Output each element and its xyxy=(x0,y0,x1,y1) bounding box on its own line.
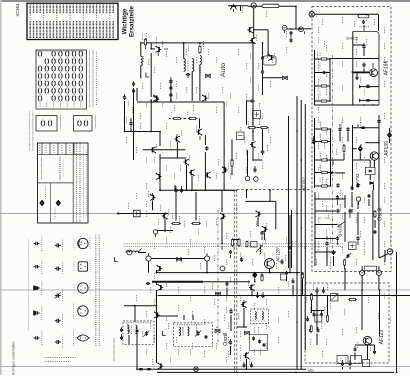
wire mid links xyxy=(159,154,161,190)
test point circle TP1 xyxy=(282,25,287,30)
wire mixer vertical xyxy=(252,43,254,132)
ratio det cap xyxy=(146,282,151,285)
junction dots xyxy=(140,42,142,44)
am rail 201 xyxy=(245,200,275,202)
if mid links xyxy=(246,101,248,125)
am if box xyxy=(263,56,276,65)
osc filter box xyxy=(349,242,357,250)
transistor AF139 xyxy=(370,152,378,160)
FM2 diode arrow xyxy=(331,172,335,175)
bottom rail caps xyxy=(139,369,142,370)
test point circle TP2 xyxy=(299,27,304,32)
ratio det trans T20 xyxy=(157,284,163,291)
pinout square xyxy=(78,262,87,271)
M marker 1 xyxy=(206,74,211,78)
voltage table column divider xyxy=(72,143,74,223)
RF res R14 xyxy=(174,117,181,119)
FM stage1 cap row 2 xyxy=(360,99,379,101)
small coil box FM caption xyxy=(95,116,96,128)
osc switch xyxy=(337,222,345,228)
scan border left xyxy=(0,0,2,375)
wire bottom rail xyxy=(137,368,306,370)
br pot box xyxy=(331,294,339,302)
wire input stage bottom xyxy=(137,101,224,103)
mixer diode D4 xyxy=(387,132,392,139)
L marker 2 xyxy=(115,257,118,262)
wire rf link xyxy=(130,128,132,132)
osc cap C40 xyxy=(325,241,328,246)
voltage table header cell values xyxy=(39,146,40,153)
supply connector circle xyxy=(251,3,256,8)
FM inner box 2 xyxy=(378,115,380,190)
diode symbol D1 xyxy=(39,200,44,207)
output trafo box 1 xyxy=(337,356,348,364)
FM2 links xyxy=(378,155,380,157)
am osc boxes xyxy=(251,242,258,248)
det caps xyxy=(174,188,177,193)
voltage table frame xyxy=(38,143,89,223)
trimmer stack C4 xyxy=(169,79,172,83)
br res 352 xyxy=(350,298,356,300)
br caps row3 xyxy=(309,328,312,332)
IF trans T6 xyxy=(222,166,228,173)
FM box links xyxy=(353,44,364,46)
K marker 2 xyxy=(245,331,250,335)
osc trim xyxy=(347,254,350,258)
legend C symbol 3 xyxy=(34,286,40,289)
osc coupling caps xyxy=(261,55,264,61)
det trans T14 xyxy=(162,213,168,220)
br cap 355 xyxy=(354,347,357,351)
AM dashed partition xyxy=(233,190,235,373)
FM ladder comp y86 xyxy=(315,85,331,87)
tuner interior extra wires xyxy=(352,71,370,73)
antenna resistor R1 xyxy=(144,39,146,45)
RF trans T11 xyxy=(189,170,195,177)
IF transformer dashed box 2 xyxy=(174,323,213,346)
FM stage1 base wire xyxy=(353,72,370,74)
output trafo box 2 xyxy=(351,356,362,364)
trimmer stack C5 xyxy=(169,86,172,90)
K marker xyxy=(283,76,288,80)
M marker 4 xyxy=(215,329,220,333)
FM stage1 labels xyxy=(363,90,366,95)
small coil box AM xyxy=(36,116,57,132)
osc transformer dashed box xyxy=(251,309,269,324)
tuner dashed enclosure xyxy=(312,6,391,271)
br res 311b xyxy=(310,326,312,332)
crystal box X1 xyxy=(134,210,141,217)
IF t2 caps xyxy=(205,335,208,339)
input trimmer C1 xyxy=(132,89,135,94)
osc cap row 3 xyxy=(336,236,339,241)
FM2 rail 142 xyxy=(365,142,379,144)
voltage table transistor column text xyxy=(41,157,42,179)
legend trimmer symbol 4 xyxy=(55,319,61,323)
wire if bus b xyxy=(300,100,302,369)
tuner bottom sockets xyxy=(360,270,365,275)
voltage table mid divider xyxy=(38,182,74,184)
legend trimmer symbol 3 xyxy=(55,294,61,298)
RF trans T8c xyxy=(196,129,202,136)
FM2 interior extra xyxy=(353,159,371,161)
FM2 ladder comp y172.5 xyxy=(315,172,331,174)
bottom mid links xyxy=(124,305,157,307)
mixer transistor T4 xyxy=(250,38,256,45)
bottom left part numbers xyxy=(113,338,114,360)
IF t2 coils xyxy=(179,327,180,336)
am if transistor T4c xyxy=(268,54,274,61)
legend caption column left xyxy=(28,240,29,330)
IF t1 caps xyxy=(120,328,123,332)
IF t2 trimmer xyxy=(196,331,199,336)
osc inner box xyxy=(250,335,268,351)
legend trimmer symbol 1 xyxy=(55,243,61,247)
FM2 lower caps xyxy=(336,183,339,188)
wire lf rail 295 xyxy=(158,295,410,297)
RF trans T12 xyxy=(156,173,162,180)
wire osc links xyxy=(257,217,259,227)
wire AGC xyxy=(298,28,311,30)
am osc cap C50 xyxy=(225,282,228,287)
svg-text:Wichtige: Wichtige xyxy=(121,8,128,34)
varicap socket xyxy=(387,249,393,255)
fold line 1 xyxy=(0,213,410,215)
am osc trans xyxy=(249,285,255,292)
FM ladder comp y72.5 xyxy=(315,72,331,74)
IF res R11 xyxy=(249,126,255,128)
transistor T2 xyxy=(153,94,159,101)
FM stage1 rail 58 xyxy=(330,58,379,60)
diode symbol D2 xyxy=(56,200,61,207)
legend trimmer symbol 5 xyxy=(55,340,61,344)
test point TP4 xyxy=(254,177,259,182)
RF trimmer C14 xyxy=(123,95,126,100)
osc out res xyxy=(344,260,346,265)
supply resistor R3 xyxy=(262,4,279,7)
br res 327 xyxy=(327,316,329,322)
RF trans T10b xyxy=(205,172,211,179)
bandfilter transformer Tr1 xyxy=(184,59,186,72)
caption left of boxes xyxy=(29,112,30,150)
transistor T3 xyxy=(230,4,237,10)
pinout lens xyxy=(77,335,89,341)
test point TP5 xyxy=(153,230,157,234)
trimmer stack C6 xyxy=(169,93,172,97)
svg-text:Oscill.: Oscill. xyxy=(377,206,383,221)
wire top rail xyxy=(248,5,296,7)
osc cap row 1 xyxy=(350,186,353,191)
wire right tail xyxy=(396,252,398,373)
fold line 3 xyxy=(0,366,410,368)
legend C symbol 5 xyxy=(34,336,40,339)
ratio det trans T24 xyxy=(154,311,160,318)
am trans T18 AF126 xyxy=(265,259,275,269)
IF filter box F2 xyxy=(237,132,245,140)
am res R20 xyxy=(231,240,233,246)
RF trans T9 xyxy=(150,147,156,154)
IF t1 coils xyxy=(128,325,129,334)
antenna coil L1 xyxy=(141,56,143,65)
coil glyph captions xyxy=(40,102,41,107)
am diode D3 xyxy=(252,272,257,279)
br cap 374 xyxy=(373,350,376,354)
FM2 caps xyxy=(338,127,341,132)
det trans T21 xyxy=(157,362,163,369)
wire IF rail xyxy=(124,131,160,133)
pinout circle 1 xyxy=(78,238,88,248)
FM2 rail 127 xyxy=(353,127,380,129)
osc output link coil xyxy=(365,266,377,270)
br res 311 xyxy=(311,294,313,300)
legend electrolytic C symbol 1 xyxy=(34,242,40,245)
RF trans T7 xyxy=(153,96,159,103)
pinout circle 2 xyxy=(78,283,88,293)
br caps row1 xyxy=(315,289,318,294)
RF trans T8b xyxy=(174,136,180,143)
mixer diode D5 xyxy=(358,145,363,152)
bandfilter cap C3 xyxy=(186,73,191,76)
voltage table header divider xyxy=(38,154,89,156)
wire if bus a xyxy=(296,96,298,369)
am trans T23 xyxy=(243,353,249,360)
osc blob xyxy=(332,250,335,255)
FM2 ladder comp y160 xyxy=(315,159,331,161)
am trans T17 xyxy=(262,226,268,233)
value marks xyxy=(126,8,391,364)
rf mid links xyxy=(124,101,126,132)
det links xyxy=(152,201,154,211)
coil spare-parts box xyxy=(36,50,87,109)
am bottom caps xyxy=(243,363,246,367)
det res R17 xyxy=(173,222,180,224)
spare parts table frame xyxy=(27,3,118,39)
tuner osc links xyxy=(314,192,316,266)
RF cap C17 xyxy=(205,146,208,151)
am res 302 xyxy=(302,273,304,278)
coil box top caption xyxy=(37,51,83,52)
wire mixer links xyxy=(253,8,255,38)
wire rf col 205 xyxy=(204,135,206,145)
FM input cap C30 xyxy=(362,20,365,24)
am res R21 xyxy=(238,240,240,246)
legend C symbol 4 xyxy=(34,311,40,314)
wire agc bus xyxy=(288,116,290,268)
antenna socket xyxy=(309,12,315,18)
spare parts table text rows xyxy=(29,5,31,13)
svg-text:Ersatzteile: Ersatzteile xyxy=(128,5,135,37)
legend caption column right xyxy=(95,235,96,345)
det out xyxy=(136,334,138,340)
am cap C22 xyxy=(229,250,232,255)
legend trimmer symbol 2 xyxy=(55,267,61,271)
coil glyph grid xyxy=(38,51,41,56)
am cap 342 xyxy=(229,340,232,345)
input trimmer C2 xyxy=(132,82,135,87)
voltage table header row dividers xyxy=(41,143,43,155)
FM stage1 caps xyxy=(362,63,365,68)
am cap C21 xyxy=(260,231,263,236)
wire band switch dotted 1 xyxy=(123,242,126,245)
am caps 296 xyxy=(256,294,259,298)
am osc links xyxy=(246,190,248,198)
wire band switch dotted 2 xyxy=(123,245,126,248)
wire if down xyxy=(156,290,158,363)
RF trans T8 xyxy=(202,94,208,101)
am res R22 xyxy=(261,275,263,281)
osc cap row 2 xyxy=(336,209,339,214)
transistor T1 xyxy=(156,46,162,53)
pickup connector xyxy=(194,367,199,372)
input stage R2 xyxy=(199,47,201,53)
input stage coil L2 xyxy=(200,56,202,65)
wire input stage links xyxy=(150,53,152,97)
pinout circle 3 xyxy=(78,306,88,316)
gang link stub xyxy=(318,217,333,219)
wire mixer stub xyxy=(240,6,242,11)
br verticals xyxy=(361,290,363,330)
RF trimmer C15 xyxy=(129,121,132,126)
wire am rail 190 xyxy=(175,189,234,191)
svg-text:AF139: AF139 xyxy=(384,141,390,156)
IF res R12 xyxy=(261,126,267,128)
FM inner box 1 xyxy=(353,32,379,106)
svg-text:BZ702: BZ702 xyxy=(302,177,307,191)
FM2 top cap xyxy=(377,121,381,123)
coil box right caption xyxy=(89,50,90,106)
br caps row4 xyxy=(341,362,344,366)
svg-text:Oszill.: Oszill. xyxy=(223,331,229,346)
FM stage1 cap row 1 xyxy=(360,86,379,88)
wire agc link xyxy=(253,29,268,31)
FM2 ladder comp y129 xyxy=(315,128,331,130)
br box 318 xyxy=(315,315,322,322)
switch circle S2 xyxy=(146,256,151,261)
svg-text:Änderungen vorbehalten: Änderungen vorbehalten xyxy=(12,341,16,375)
RF trans T10 xyxy=(183,159,189,166)
br box 366 xyxy=(363,360,370,367)
IF trans T5 xyxy=(250,142,256,149)
am vertical 291 xyxy=(291,210,293,268)
FM ladder comp y59 xyxy=(315,58,331,60)
br cap 307 xyxy=(306,317,309,321)
L marker 3 xyxy=(163,331,166,336)
small coil box AM caption xyxy=(60,116,61,128)
svg-text:BA102: BA102 xyxy=(338,223,343,237)
AM dashed partition top xyxy=(237,189,312,191)
FM ladder comp y101 xyxy=(315,100,331,102)
wire lf rail 272 xyxy=(156,272,300,274)
osc long verticals xyxy=(372,190,374,252)
tuning gang dash-dot line xyxy=(332,55,334,252)
fold line 2 xyxy=(0,289,410,291)
wire bottom rail 2 xyxy=(157,371,296,373)
IF t1 trimmer xyxy=(145,331,148,336)
wire bottom left down xyxy=(136,340,138,369)
wire antenna down xyxy=(140,43,142,56)
am top caps xyxy=(285,271,288,275)
lf trans T15 xyxy=(156,265,162,272)
wire rf row 150 xyxy=(143,149,186,151)
legend bottom caption a xyxy=(45,357,76,358)
IF cap C12 xyxy=(261,149,265,155)
wire if bus c xyxy=(304,104,306,350)
FM2 boxed trimmer xyxy=(366,167,376,174)
osc coil L4 xyxy=(260,245,262,254)
switch coil L3 xyxy=(126,251,139,253)
wire AF196 input rail xyxy=(315,13,379,15)
det trans T13 xyxy=(150,194,156,201)
am agc transistor T4b xyxy=(247,27,253,34)
legend C symbol 2 xyxy=(34,265,40,268)
FM core dots xyxy=(359,25,362,28)
IF cap C10 xyxy=(249,99,255,102)
svg-text:Auto: Auto xyxy=(220,63,227,77)
wire IF stage xyxy=(252,147,254,160)
am if bus taps xyxy=(296,130,298,132)
osc interior extra xyxy=(344,212,346,240)
am trans T16 xyxy=(255,210,261,217)
scan border top xyxy=(0,0,410,2)
tuner internal verticals xyxy=(344,228,346,242)
L marker 1 xyxy=(146,73,149,78)
bottom right links xyxy=(311,301,313,314)
wire oszill out xyxy=(344,269,346,291)
FM vert link xyxy=(329,59,331,101)
svg-text:AF196: AF196 xyxy=(384,60,390,75)
FM input res R30 xyxy=(358,15,369,18)
small coil box FM xyxy=(74,116,93,132)
voltage table lower cell divider xyxy=(50,183,52,223)
am osc trans T22 xyxy=(241,302,247,309)
test point TP3 xyxy=(245,176,250,181)
FM res ladder xyxy=(314,50,316,105)
FM2 diode xyxy=(370,181,374,184)
lead stubs xyxy=(122,9,375,365)
lower dashed box xyxy=(305,283,389,363)
mixer caps extra xyxy=(290,31,293,35)
am cap 311 xyxy=(229,309,232,314)
br caps row2 xyxy=(313,312,316,316)
switch circle S3 xyxy=(204,256,209,261)
FM2 small res xyxy=(343,146,345,152)
am trans T16b xyxy=(220,213,226,220)
osc res pair xyxy=(336,195,339,200)
osc t core xyxy=(251,320,254,323)
M marker 3 xyxy=(216,292,221,296)
switch circle S4 xyxy=(220,266,225,271)
transistor AF196 xyxy=(370,69,378,77)
IF cap C13 xyxy=(253,167,256,172)
osc inner parts xyxy=(252,336,255,340)
FM2 ladder xyxy=(314,118,316,188)
wire lf rail 281 xyxy=(157,281,250,283)
voltage table extra marks xyxy=(45,186,46,199)
transistor AF121 xyxy=(363,336,371,344)
IF transformer dashed box 1 xyxy=(123,321,154,344)
IF filter box F1 xyxy=(253,111,261,119)
det res R18 xyxy=(193,222,200,224)
FM stage1 bottom wire xyxy=(315,104,380,106)
svg-text:3C364: 3C364 xyxy=(15,3,20,16)
wire left column down xyxy=(133,88,135,160)
wire antenna rail xyxy=(141,42,253,44)
IF res R13 xyxy=(231,160,233,166)
am caps pair xyxy=(288,246,291,251)
FM cap C31 xyxy=(362,44,365,49)
shielded cable bar xyxy=(152,281,203,283)
am cap C23 xyxy=(240,257,243,262)
